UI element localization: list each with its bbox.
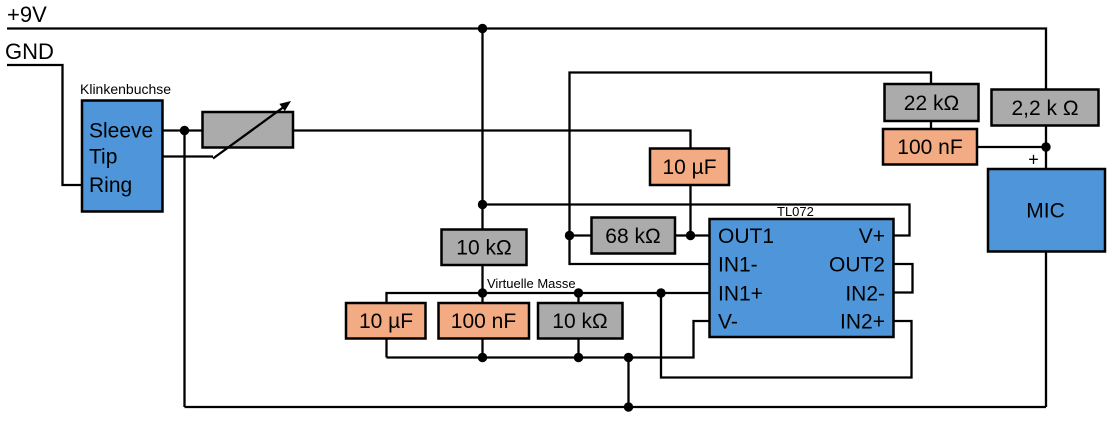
svg-text:22 kΩ: 22 kΩ — [904, 92, 959, 115]
svg-text:V+: V+ — [859, 225, 885, 248]
svg-text:10 kΩ: 10 kΩ — [456, 237, 511, 260]
svg-text:V-: V- — [718, 311, 738, 334]
svg-text:Klinkenbuchse: Klinkenbuchse — [80, 81, 171, 97]
svg-text:10 µF: 10 µF — [662, 156, 716, 179]
svg-text:2,2 k Ω: 2,2 k Ω — [1011, 97, 1078, 120]
svg-text:10 µF: 10 µF — [359, 310, 413, 333]
svg-text:Ring: Ring — [89, 174, 132, 197]
svg-text:Virtuelle Masse: Virtuelle Masse — [487, 276, 576, 291]
svg-text:OUT1: OUT1 — [718, 225, 774, 248]
svg-text:+9V: +9V — [7, 2, 47, 27]
svg-text:68 kΩ: 68 kΩ — [605, 225, 660, 248]
svg-text:10 kΩ: 10 kΩ — [552, 310, 607, 333]
svg-text:MIC: MIC — [1026, 200, 1065, 223]
svg-text:GND: GND — [5, 39, 54, 64]
svg-text:Tip: Tip — [89, 146, 117, 169]
svg-text:100 nF: 100 nF — [897, 136, 962, 159]
svg-text:+: + — [1028, 150, 1039, 170]
svg-text:100 nF: 100 nF — [451, 310, 516, 333]
svg-text:IN2-: IN2- — [845, 283, 885, 306]
svg-text:IN1+: IN1+ — [718, 283, 763, 306]
svg-text:TL072: TL072 — [777, 204, 814, 219]
svg-text:OUT2: OUT2 — [829, 254, 885, 277]
svg-text:IN1-: IN1- — [718, 254, 758, 277]
svg-text:Sleeve: Sleeve — [89, 120, 153, 143]
svg-text:IN2+: IN2+ — [840, 311, 885, 334]
